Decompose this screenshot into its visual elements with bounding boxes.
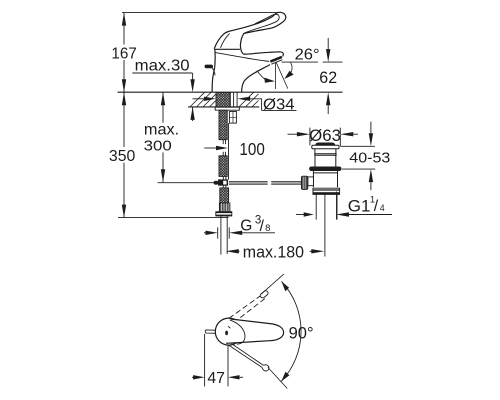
deck top line — [118, 91, 343, 93]
pop-up knob — [205, 65, 213, 69]
push cap — [315, 143, 335, 146]
62 top reference line (spout outlet level) — [282, 61, 343, 63]
lever blade with waist — [214, 12, 286, 54]
faucet body outline — [205, 12, 286, 92]
supply hose upper segment — [219, 110, 227, 140]
diagonal leg — [276, 62, 288, 89]
dashed lever position — [229, 294, 263, 319]
neck — [314, 149, 337, 155]
bottom nut — [313, 188, 340, 194]
max30 arrow up below deck — [192, 107, 194, 121]
flange — [312, 145, 339, 149]
max30 arrow down — [192, 73, 194, 80]
pop-up rod tube at deck — [230, 92, 237, 107]
vertical leg — [274, 63, 276, 90]
62 dim upper arrow — [327, 38, 329, 49]
left thin rod — [205, 330, 215, 333]
arrow down max300 — [161, 169, 165, 182]
collar — [216, 212, 232, 216]
svg-text:62: 62 — [319, 69, 337, 87]
aerator — [270, 57, 282, 62]
upper body — [315, 155, 336, 166]
deck hatching left — [190, 92, 218, 107]
max180 arrows — [236, 250, 240, 252]
40-53 dimension — [341, 122, 376, 191]
rubber seal — [309, 167, 341, 172]
blade inner line and tip loop — [244, 14, 280, 33]
body top rim line — [214, 48, 240, 50]
lever thin tip (solid position) — [229, 344, 264, 368]
arc right piece from label line — [290, 62, 292, 72]
axis line lower — [268, 367, 287, 388]
svg-text:G: G — [240, 218, 252, 235]
deck bottom line — [188, 106, 259, 108]
svg-text:350: 350 — [109, 148, 136, 165]
arc left arrowhead — [264, 78, 275, 83]
arrow down 350 — [122, 205, 126, 218]
spout top line — [244, 52, 284, 57]
tip capsule solid — [262, 365, 269, 371]
Ø63 arrows — [288, 133, 298, 135]
90 degree arc — [281, 281, 301, 381]
svg-text:max.30: max.30 — [135, 58, 190, 75]
dimension 167 line — [123, 13, 125, 93]
tailpipe centerline — [324, 194, 326, 256]
hose below tee — [220, 188, 229, 203]
svg-text:max.: max. — [144, 121, 179, 138]
svg-text:90°: 90° — [289, 323, 314, 342]
deck hatching right — [239, 92, 259, 107]
inner sweep line — [215, 53, 269, 62]
lever capsule top view — [226, 319, 284, 343]
47 dimension — [192, 334, 243, 386]
halo under 167 — [110, 45, 139, 61]
pop-up rod horizontal line left part — [158, 182, 214, 184]
pop-up rod vertical line — [228, 123, 230, 180]
svg-text:/: / — [260, 218, 265, 235]
G1 1/4 dimension — [296, 192, 392, 220]
350 bottom reference line — [118, 217, 229, 219]
svg-text:/: / — [374, 198, 379, 215]
axis line upper — [261, 274, 284, 294]
dashed tip capsule — [259, 290, 269, 299]
pop-up rod housing — [229, 112, 236, 124]
svg-text:26°: 26° — [295, 47, 320, 64]
tailpipe — [316, 194, 337, 219]
svg-text:4: 4 — [380, 203, 385, 213]
knurled nut — [219, 203, 230, 213]
left port — [308, 177, 314, 186]
arrow up max300 — [161, 92, 165, 105]
svg-text:8: 8 — [265, 223, 270, 234]
svg-text:167: 167 — [111, 45, 136, 62]
hose stubs at tee — [223, 177, 226, 188]
dimension 350 line — [123, 92, 125, 217]
pop-up rod to drain (with break) — [229, 182, 301, 184]
arc bottom arrowhead — [281, 372, 289, 382]
body circle top view — [215, 318, 242, 345]
knurled knob on rod — [301, 176, 307, 189]
lower body — [313, 171, 337, 187]
Ø34 right arrow + leader — [250, 99, 296, 111]
svg-text:Ø34: Ø34 — [263, 96, 295, 113]
halo under 350 — [108, 147, 137, 163]
62 dim lower arrow — [327, 105, 329, 114]
arc top arrowhead — [282, 281, 290, 291]
spout belly curve — [242, 65, 270, 92]
supply hose lower segment — [219, 156, 227, 177]
faucet threaded shank through deck — [216, 92, 230, 107]
washer under deck — [215, 107, 239, 110]
svg-text:100: 100 — [239, 139, 265, 159]
Ø63 extension lines — [310, 128, 340, 147]
G3/8 arrows — [204, 232, 206, 234]
svg-text:Ø63: Ø63 — [309, 127, 341, 145]
svg-text:G1: G1 — [348, 196, 371, 215]
G3/8 extension lines — [218, 227, 230, 238]
halo under max.300 — [142, 123, 181, 153]
max30 underline — [132, 72, 192, 74]
arrow up 350 — [122, 92, 126, 105]
arrow down 167 — [122, 79, 126, 92]
lever knob inner arc — [230, 320, 245, 344]
top reference line — [122, 12, 278, 14]
svg-text:300: 300 — [144, 138, 172, 155]
body left edge — [212, 49, 215, 92]
26 deg annotation — [257, 62, 294, 89]
supply pipe — [221, 216, 227, 255]
set screw dot — [225, 331, 228, 336]
inner left skirt line — [221, 33, 230, 47]
dimension max300 line — [162, 92, 164, 182]
Ø34 left arrow — [193, 98, 205, 100]
arrow up 167 — [122, 13, 126, 26]
svg-text:40-53: 40-53 — [349, 150, 390, 167]
hose break stubs — [223, 140, 225, 156]
arc left piece — [257, 71, 265, 79]
drain assembly — [288, 128, 359, 257]
100 arrow — [204, 147, 216, 149]
svg-text:max.180: max.180 — [243, 243, 304, 262]
svg-text:47: 47 — [207, 370, 225, 387]
tee / ball joint — [218, 179, 228, 185]
arc right arrowhead — [284, 71, 293, 79]
